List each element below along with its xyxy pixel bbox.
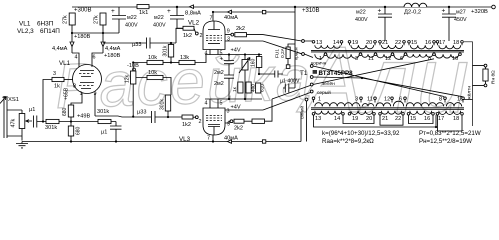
tube VL3 envelope [203, 108, 225, 135]
svg-text:160: 160 [251, 58, 257, 67]
svg-text:8,8мА: 8,8мА [185, 11, 201, 17]
ground bus wire [22, 141, 301, 143]
resistor R12 13k [179, 60, 195, 64]
resistor R20 2k2 screen VL3 [234, 119, 244, 123]
terminal sinii [305, 98, 308, 101]
svg-text:10k: 10k [148, 70, 157, 76]
svg-text:+: + [378, 8, 382, 15]
wire R18 [258, 55, 260, 75]
svg-text:µ33: µ33 [132, 42, 141, 48]
svg-text:0,2А: 0,2А [280, 47, 286, 58]
connector XS1 arrow [0, 97, 6, 104]
svg-text:301k: 301k [97, 109, 109, 115]
svg-text:20: 20 [366, 40, 372, 46]
svg-text:680: 680 [62, 107, 68, 116]
svg-text:12k: 12k [125, 74, 131, 83]
svg-text:14: 14 [333, 40, 339, 46]
capacitor C1 m22 400V [112, 7, 126, 33]
ground symbol [16, 142, 28, 148]
node dot bus/R18 [258, 53, 260, 55]
capacitor C9 m27 450V psu [442, 7, 456, 41]
T1 upper secondary winding row [315, 45, 461, 49]
svg-text:610: 610 [260, 84, 266, 92]
svg-text:12: 12 [385, 56, 391, 62]
svg-text:VL2,3: VL2,3 [17, 28, 34, 35]
svg-text:7: 7 [210, 16, 213, 22]
terminal +320B [492, 5, 496, 9]
trimpot R17 [242, 60, 248, 71]
svg-text:+180В: +180В [104, 53, 121, 59]
resistor R18 160 cathode [256, 57, 261, 68]
svg-text:Rн 8Ω: Rн 8Ω [491, 70, 497, 84]
node dot bus/R6 [70, 140, 72, 142]
node dot rail/cap C2 [176, 6, 178, 8]
VL1 lower triode system [80, 83, 94, 89]
svg-text:µ1: µ1 [29, 107, 35, 113]
node dot C10 wire [258, 73, 260, 75]
jumper square fuse [286, 65, 290, 69]
svg-text:21: 21 [382, 116, 388, 122]
svg-text:м27: м27 [456, 10, 466, 16]
resistor R 1k1 [137, 5, 149, 9]
resistor R5 680 upper [68, 105, 73, 117]
svg-text:+310В: +310В [302, 8, 320, 14]
resistor R16 2k2 screen VL2 [235, 33, 247, 37]
wire +310 drop [294, 7, 296, 88]
svg-text:18: 18 [453, 116, 459, 122]
current arrow 40mA bottom [228, 140, 232, 144]
wire VL2 anode right [225, 40, 263, 42]
T1 upper primary winding row [315, 54, 459, 59]
node dot rail +310B [294, 6, 296, 8]
svg-text:3: 3 [227, 37, 230, 43]
svg-text:13: 13 [315, 116, 321, 122]
svg-text:17: 17 [438, 116, 444, 122]
VL3 internal electrodes [206, 116, 222, 121]
wire R6 to ground bus [70, 136, 72, 142]
wire R9 to 10k row [170, 57, 172, 63]
svg-text:11: 11 [367, 97, 373, 103]
svg-text:3: 3 [355, 97, 358, 103]
svg-text:+320В: +320В [471, 9, 488, 15]
wire VL1 pin9 down [94, 93, 96, 116]
wire 12k down [133, 63, 147, 118]
current arrow 8,8mA [190, 5, 194, 9]
resistor R8 301k [98, 119, 111, 123]
terminal mid 2 [310, 76, 313, 79]
wire trimpot [244, 55, 246, 100]
terminal upper red 2 [302, 53, 305, 56]
wire R8 to C4 [111, 122, 116, 127]
node dot C5/R301k [170, 42, 172, 44]
wire secondary out right [438, 115, 463, 131]
resistor R15 1k2 grid stopper VL2 [183, 26, 194, 30]
cathode bus lower [205, 98, 262, 100]
svg-text:Рт=0,83**2*12,5=21W: Рт=0,83**2*12,5=21W [419, 130, 481, 137]
wire +180V bus [72, 25, 119, 53]
svg-text:9: 9 [227, 122, 230, 128]
capacitor C2 m22 400V [170, 7, 184, 28]
svg-text:27k: 27k [63, 15, 69, 24]
svg-text:27k: 27k [94, 15, 100, 24]
resistor R21 [252, 119, 265, 123]
resistor R19 1k2 grid stopper VL3 [182, 115, 193, 119]
node dot pin7/rail2 [212, 11, 214, 13]
resistor R23 vertical [246, 82, 251, 93]
VL2 internal electrodes [208, 21, 220, 30]
svg-text:4,4мА: 4,4мА [52, 46, 68, 52]
lower primary tap numbers [318, 97, 463, 103]
wire taps to winding upper [304, 41, 313, 58]
wire bottom bus extension [300, 112, 302, 142]
secondary series jumper 22-15 [409, 115, 434, 123]
node dot cathode bus C7 [228, 53, 230, 55]
wire crossing mid X [263, 35, 463, 110]
wire R13 row [136, 78, 171, 96]
svg-text:7: 7 [207, 136, 210, 142]
wire VL2 pins45 cathode [210, 50, 218, 55]
svg-text:13: 13 [316, 40, 322, 46]
resistor R9 301k grid leak VL2 [168, 45, 173, 58]
svg-text:8: 8 [439, 97, 442, 103]
lower secondary tap circles [312, 113, 463, 116]
svg-text:21: 21 [382, 40, 388, 46]
upper secondary tap numbers [316, 40, 459, 46]
upper secondary tap circles [312, 41, 463, 44]
svg-text:14: 14 [334, 116, 340, 122]
T1 lower primary winding row [315, 101, 462, 106]
node dot 12k bottom [132, 116, 134, 118]
upper primary tap numbers [319, 56, 458, 62]
svg-text:VL1: VL1 [59, 60, 71, 67]
tube VL1 envelope [73, 65, 102, 94]
wire VL2 pin9 screen [225, 34, 231, 36]
svg-text:VL3: VL3 [179, 136, 191, 143]
svg-text:+49В: +49В [77, 114, 90, 120]
svg-text:11: 11 [368, 56, 374, 62]
T1 lower secondary winding row [315, 111, 461, 115]
node dot bus/trimpot [244, 53, 246, 55]
upper secondary tap stems [342, 43, 463, 45]
svg-text:6: 6 [399, 97, 402, 103]
load resistor Rn 8ohm [483, 69, 488, 81]
terminal upper red 1 [302, 40, 305, 43]
svg-text:µ33: µ33 [137, 110, 146, 116]
wire crossing upper B [263, 41, 302, 54]
VL3 grid circle pin2 [195, 116, 198, 119]
current arrow 4,4mA right [101, 42, 105, 47]
terminal mid 4 [310, 90, 313, 93]
node dot C6/R14 [167, 116, 169, 118]
svg-text:+180В: +180В [74, 34, 91, 40]
capacitor C5 mu33 upper coupling [147, 28, 184, 48]
wire R5 to node [70, 117, 72, 126]
svg-text:40мА: 40мА [224, 136, 238, 142]
wire VL3 pin7 to bus [212, 135, 214, 142]
svg-text:9: 9 [227, 29, 230, 35]
choke L1 bumps [404, 3, 427, 7]
svg-text:15: 15 [410, 116, 416, 122]
lower primary tap circles [312, 97, 464, 100]
secondary series jumper 20-21 [380, 115, 403, 125]
svg-text:VL1: VL1 [19, 21, 31, 28]
wire R4 to VL1 [64, 79, 73, 81]
svg-text:м22: м22 [356, 10, 366, 16]
node dot crossing [361, 77, 363, 79]
wire VL1 pin1 down [71, 93, 82, 105]
node dot R11/R9 [170, 61, 172, 63]
core marker [313, 70, 317, 74]
node dot R5/R6 [70, 120, 72, 122]
wire Rn [473, 66, 486, 86]
resistor R10 12k [131, 71, 136, 84]
capacitor C10 cathode bypass [262, 71, 283, 78]
wire node A to R7 to node B [59, 121, 98, 123]
terminal mid 1 [310, 65, 313, 68]
wire R20 to R21 [244, 120, 252, 122]
test point -10B [133, 68, 136, 71]
svg-text:1k2: 1k2 [182, 122, 191, 128]
wire sinii [306, 101, 308, 142]
svg-text:8: 8 [73, 84, 76, 90]
svg-text:19: 19 [352, 116, 358, 122]
circle pin9 node [231, 33, 234, 36]
svg-text:4: 4 [75, 55, 78, 61]
svg-text:47k: 47k [11, 119, 17, 128]
svg-text:2м2: 2м2 [214, 70, 224, 76]
svg-text:22: 22 [395, 40, 401, 46]
wire R11 to R12 [163, 62, 179, 64]
potentiometer R3 47k [19, 114, 25, 129]
svg-text:синий: синий [299, 106, 306, 119]
svg-text:FU1: FU1 [275, 49, 281, 58]
resistor R13 10k lower [147, 75, 163, 79]
svg-text:+65В: +65В [64, 87, 70, 100]
resistor R6 680 lower [68, 126, 73, 136]
svg-text:16: 16 [425, 40, 431, 46]
wire VL3 pin9 [225, 121, 230, 123]
svg-text:301k: 301k [163, 45, 169, 56]
svg-text:+: + [220, 57, 224, 63]
wire secondary out left [314, 115, 437, 127]
wire grid VL1 [43, 80, 52, 122]
node dot pin7 bus [212, 140, 214, 142]
svg-text:1: 1 [319, 56, 322, 62]
node dot bus/R2 [102, 32, 104, 34]
svg-text:красн: красн [295, 47, 300, 60]
svg-text:400V: 400V [153, 23, 166, 29]
svg-text:1k2: 1k2 [183, 33, 192, 39]
wire R12 right nfb [195, 55, 206, 63]
svg-text:Д2-0,2: Д2-0,2 [404, 10, 421, 16]
svg-text:8: 8 [428, 56, 431, 62]
wire VL1 pin4 anode [72, 53, 79, 67]
VL2 grid circle pin2 [195, 32, 198, 35]
svg-text:6П14П: 6П14П [40, 28, 60, 35]
tube VL2 envelope [203, 21, 225, 50]
svg-text:2м2: 2м2 [214, 81, 224, 87]
pot wiper arrow [26, 120, 32, 123]
VL2 anode cap wire pin7 [212, 12, 214, 21]
resistor R22 vertical [238, 82, 243, 93]
cathode bus upper [205, 54, 262, 56]
jumper square bottom [262, 140, 265, 143]
resistor R14 301k grid leak VL3 [165, 95, 170, 111]
svg-text:м22: м22 [154, 15, 164, 21]
svg-text:3: 3 [355, 56, 358, 62]
svg-text:k=(96*4+10+30)/12,5=33,92: k=(96*4+10+30)/12,5=33,92 [322, 130, 400, 137]
node dot rail cap C9 [448, 6, 450, 8]
svg-text:40мА: 40мА [224, 15, 238, 21]
T1 right boundary wire [463, 42, 473, 126]
svg-text:4,4мА: 4,4мА [105, 46, 121, 52]
capacitor C11 mu1 400V [283, 84, 295, 93]
svg-text:13k: 13k [180, 55, 189, 61]
svg-text:6Н3П: 6Н3П [37, 21, 54, 28]
wire VL1 pin9 to C6 lower path [95, 116, 151, 117]
svg-text:12: 12 [384, 97, 390, 103]
svg-text:µ1: µ1 [101, 130, 107, 136]
lower secondary tap numbers [315, 116, 459, 122]
svg-text:Рн=12,5**2/8=19W: Рн=12,5**2/8=19W [419, 138, 472, 145]
node dot 12k top [132, 61, 134, 63]
lower primary tap stems [314, 100, 464, 103]
svg-text:2k2: 2k2 [236, 26, 245, 32]
wire crossing upper A [263, 35, 302, 41]
wire R16 right [247, 34, 264, 36]
svg-text:10k: 10k [148, 55, 157, 61]
fuse FU1 [286, 47, 290, 59]
svg-text:Т1: Т1 [300, 70, 308, 77]
svg-text:19: 19 [352, 40, 358, 46]
capacitor C7a 2m2 [224, 55, 234, 76]
jumper square top [262, 10, 265, 13]
connector XS1 [4, 96, 22, 138]
VL1 upper triode system [80, 71, 94, 77]
capacitor C4 mu1 to ground [110, 126, 122, 142]
svg-text:6: 6 [93, 55, 96, 61]
svg-text:16: 16 [424, 116, 430, 122]
wire VL3 anode right [225, 109, 263, 111]
svg-text:2: 2 [200, 33, 203, 39]
svg-text:4: 4 [205, 101, 208, 107]
resistor R7 301k [46, 119, 59, 123]
svg-text:400V: 400V [355, 17, 368, 23]
current arrow 40mA top [228, 10, 232, 14]
capacitor C7b 2m2 [224, 75, 234, 99]
current arrow 4,4mA left [70, 42, 74, 47]
node dot bus/R1 [71, 32, 73, 34]
svg-text:1k: 1k [54, 84, 60, 90]
wire R18 to C10 [259, 73, 262, 75]
svg-text:301k: 301k [45, 125, 57, 131]
wire fuse [288, 44, 295, 65]
svg-text:серый: серый [317, 89, 331, 96]
svg-text:2k2: 2k2 [234, 126, 243, 132]
node dot bus/C4 [115, 140, 117, 142]
svg-text:15: 15 [411, 40, 417, 46]
terminal Rn bottom [484, 84, 487, 87]
svg-text:µ1 400V: µ1 400V [280, 79, 300, 85]
svg-text:2: 2 [199, 119, 202, 125]
resistor R11 10k [147, 60, 163, 64]
svg-text:1: 1 [318, 97, 321, 103]
svg-text:400V: 400V [125, 23, 138, 29]
svg-text:+4V: +4V [231, 48, 241, 54]
wire +300V/+310V top rail [72, 6, 494, 8]
wire 40mA screen rail [213, 11, 295, 13]
node dot rail cap C8 [384, 6, 386, 8]
upper primary tap circles [324, 53, 461, 56]
svg-text:Raa=k**2*8=9,2кΩ: Raa=k**2*8=9,2кΩ [322, 138, 374, 145]
resistor R4 1k grid stopper [52, 77, 64, 81]
circle pin9 node VL3 [230, 120, 233, 123]
svg-text:22: 22 [395, 116, 401, 122]
svg-text:18: 18 [453, 40, 459, 46]
capacitor C3 mu1 coupling [34, 116, 47, 128]
resistor R2 27k anode load [100, 13, 106, 25]
wire VL1 anode to C5 top path [103, 42, 146, 44]
node A grid wire dot [42, 120, 44, 122]
resistor R24 vertical [256, 83, 261, 93]
capacitor C8 m22 400V psu [378, 7, 392, 41]
svg-text:17: 17 [439, 40, 445, 46]
svg-text:1k1: 1k1 [139, 10, 148, 16]
trimpot arrow [239, 58, 250, 74]
svg-text:20: 20 [366, 116, 372, 122]
wire R21 right up [265, 99, 273, 121]
svg-text:+300В: +300В [74, 8, 92, 14]
T1 lower core lines [311, 108, 464, 110]
svg-text:3: 3 [227, 109, 230, 115]
svg-text:5: 5 [220, 101, 223, 107]
svg-text:680: 680 [76, 126, 82, 135]
svg-text:VL2: VL2 [188, 20, 200, 27]
wire VL1 pin6 anode [92, 53, 103, 67]
wire R15 to pin2 [194, 28, 196, 32]
wire VL3 pins45 cathode [210, 99, 218, 108]
svg-text:+: + [442, 8, 446, 15]
svg-text:+: + [167, 8, 171, 15]
svg-text:+: + [111, 8, 115, 15]
terminal mid 3 [310, 83, 313, 86]
node dot secondary out [435, 126, 437, 128]
node dots bus lower [228, 98, 230, 100]
svg-text:3: 3 [53, 71, 56, 77]
svg-text:450V: 450V [454, 17, 467, 23]
capacitor C6 mu33 lower coupling [152, 111, 183, 123]
svg-text:10: 10 [452, 56, 458, 62]
resistor R1 27k anode load [69, 13, 75, 25]
secondary series jumper 14-19 [343, 115, 374, 123]
T1 upper core lines [311, 50, 464, 52]
wire R14 to node C [167, 111, 169, 117]
wire R19 to pin2 [193, 116, 195, 118]
svg-text:6: 6 [400, 56, 403, 62]
svg-text:4: 4 [205, 51, 208, 57]
svg-text:жёлтн: жёлтн [467, 86, 473, 100]
svg-text:XS1: XS1 [8, 97, 19, 103]
svg-text:301k: 301k [160, 99, 166, 110]
svg-text:м22: м22 [127, 15, 137, 21]
terminal Rn top [484, 64, 487, 67]
